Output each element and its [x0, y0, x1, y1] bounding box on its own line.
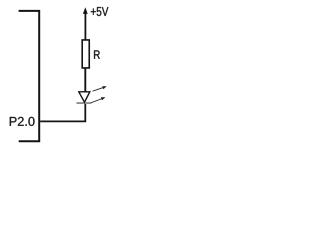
- LED D1: triangle (anode), outline: [79, 92, 90, 102]
- LED emission arrow (lower): [91, 97, 105, 102]
- LED D1: cathode bar (grey): [77, 102, 92, 104]
- +5V power label: [91, 7, 109, 16]
- wire: resistor top to +5V arrow: [84, 13, 86, 40]
- resistor R body: [82, 40, 89, 68]
- MCU box U1 (partial outline: top, right, bottom edges): [19, 11, 40, 141]
- +5V power arrow head: [83, 7, 88, 14]
- pin label P2.0: [10, 117, 35, 126]
- background: [0, 0, 126, 148]
- wire: pin P2.0 to LED cathode lead (corner at right): [40, 103, 85, 122]
- LED emission arrow (upper): [93, 86, 107, 91]
- resistor value label R: [94, 50, 100, 58]
- wire: LED anode to resistor bottom: [84, 69, 86, 93]
